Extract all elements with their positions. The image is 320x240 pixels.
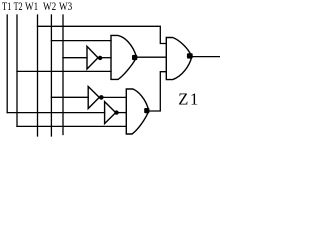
svg-text:W2: W2: [43, 1, 56, 13]
svg-text:T1: T1: [2, 1, 12, 13]
svg-text:W3: W3: [59, 1, 72, 13]
svg-text:T2: T2: [14, 1, 23, 13]
svg-text:W1: W1: [25, 1, 38, 13]
svg-text:Z1: Z1: [178, 89, 200, 108]
